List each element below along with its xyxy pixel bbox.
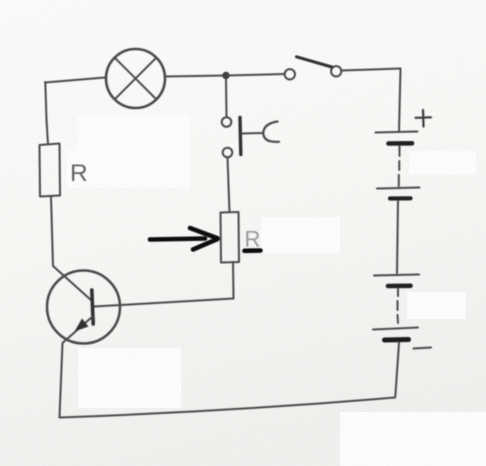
lamp L1 [106,49,165,108]
transistor Q1 base bar [92,290,93,324]
push contact: bottom circle [223,148,233,158]
battery cell 3 long plate [374,275,419,276]
wire base: resistor R1 to transistor base [51,197,91,301]
variable resistor R2 label R [245,227,261,252]
battery link dash-dot 2 [397,289,400,323]
annotation: black underline under R [245,248,261,253]
battery cell 1 long plate [376,132,418,133]
transistor Q1 emitter with arrow [63,317,93,344]
wire top-left horizontal [45,78,105,83]
annotation: black arrow pointing at R2 [150,228,218,250]
transistor Q1 circle [47,271,120,344]
wire R2 down to collector corner [232,262,235,299]
wire lamp to junction [165,76,226,77]
wire emitter down [60,343,63,417]
svg-text:R: R [70,160,88,187]
battery cell 1 short plate [389,141,413,146]
battery cell 2 short plate [390,196,411,200]
resistor R1 label R [70,160,88,187]
battery link dash-dot 1 [398,146,401,186]
battery cell 2 long plate [377,188,420,189]
switch S1 lever [297,57,332,67]
resistor R1 [40,144,61,197]
switch S1 left contact [285,69,295,79]
variable resistor R2 [221,212,240,263]
battery cell 4 short plate [385,337,409,343]
push contact: actuator fork [263,122,279,142]
node junction [222,72,229,79]
wire junction to switch [226,74,285,76]
wire battery bottom vertical [395,343,399,397]
push contact: actuator bar [238,118,242,155]
wire bottom [60,398,396,418]
wire battery top vertical [399,69,401,132]
wire collector [94,299,234,307]
push contact: top circle [222,117,232,127]
battery link solid [397,201,398,273]
wire switch to battery corner [341,69,401,71]
push contact: actuator stem [242,132,263,135]
wire contact to variable resistor [228,158,230,213]
wire junction down to contact [225,79,228,117]
battery minus label [414,348,432,349]
battery cell 4 long plate [373,328,418,330]
wire left vertical [45,82,48,144]
battery cell 3 short plate [388,283,411,288]
battery plus label [416,110,432,127]
svg-text:R: R [245,227,261,252]
switch S1 right contact [331,66,341,76]
